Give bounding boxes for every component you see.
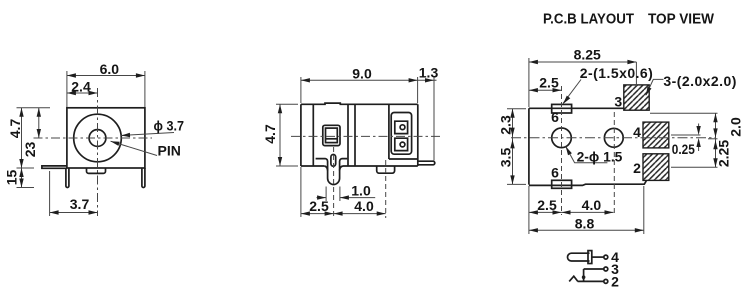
dim 4.0 bottom	[562, 197, 614, 215]
dim 1.0	[317, 182, 376, 200]
horizontal centerline side view	[291, 135, 443, 137]
outline bottom edge	[529, 181, 646, 186]
svg-text:1.3: 1.3	[419, 65, 439, 81]
center pin hole	[89, 130, 106, 147]
svg-text:2.5: 2.5	[309, 198, 329, 214]
dim 1.0 extensions	[326, 187, 340, 202]
svg-text:2.3: 2.3	[498, 115, 514, 135]
dim 9.0	[301, 65, 418, 82]
svg-text:15: 15	[4, 170, 20, 186]
svg-text:2: 2	[611, 273, 619, 289]
svg-text:ϕ 3.7: ϕ 3.7	[154, 118, 185, 134]
dim 4.7 side ticks	[276, 104, 298, 166]
plug flange	[588, 251, 592, 264]
dim 8.8	[529, 186, 644, 234]
svg-text:4.7: 4.7	[7, 119, 23, 139]
svg-text:3-(2.0x2.0): 3-(2.0x2.0)	[663, 73, 736, 89]
dim 2.5 side	[301, 198, 334, 216]
outline top edge	[529, 107, 624, 109]
svg-text:3.7: 3.7	[70, 196, 90, 212]
dim 0.25	[672, 124, 701, 158]
horizontal centerline pcb	[511, 137, 716, 139]
svg-text:2-(1.5x0.6): 2-(1.5x0.6)	[580, 65, 653, 81]
dim 3.7	[50, 196, 98, 215]
label phi 3.7 with leader	[121, 118, 184, 138]
dim 4.7 side	[262, 104, 282, 166]
hole 2 phi1.5	[604, 128, 623, 147]
pin number 6 bottom	[551, 164, 559, 180]
svg-text:3.5: 3.5	[498, 148, 514, 168]
pin number 3	[614, 94, 622, 110]
svg-text:2.5: 2.5	[537, 197, 557, 213]
left pin	[66, 168, 69, 188]
button outer	[323, 125, 340, 145]
lug base fillets	[324, 166, 343, 171]
dim 2.5 / 4.0 extension	[300, 167, 302, 217]
pad 4 hatched	[643, 122, 669, 148]
internal vertical wall 1	[312, 104, 314, 166]
switch contact spike	[569, 276, 578, 281]
pad3 vertical centerline	[635, 62, 637, 86]
label PIN with leader	[111, 141, 181, 158]
internal vertical wall 3	[354, 104, 356, 166]
pin number 6 top	[551, 109, 559, 125]
dim 2.0 / 2.25 line	[713, 113, 743, 167]
dim 4.7 / 1.5 line	[4, 108, 24, 188]
hole1 vertical centerline	[561, 86, 563, 215]
dim 9.0 extension lines	[301, 77, 434, 161]
dim 6.0 extension lines	[67, 71, 145, 107]
svg-text:8.25: 8.25	[574, 47, 601, 63]
terminal 4 circle	[604, 255, 608, 259]
plug barrel symbol	[568, 253, 590, 261]
svg-text:2: 2	[633, 160, 641, 176]
terminal 3 circle	[604, 267, 608, 271]
outline left edge	[528, 108, 530, 184]
body outline front view	[67, 108, 145, 168]
svg-text:9.0: 9.0	[352, 65, 372, 81]
svg-text:2-ϕ 1.5: 2-ϕ 1.5	[577, 149, 623, 165]
bottom boss	[87, 168, 106, 173]
label 3-(2.0x2.0) with leader	[646, 73, 737, 96]
terminal 2 circle	[604, 279, 608, 283]
svg-text:6.0: 6.0	[100, 61, 120, 77]
side body left edge	[300, 104, 302, 166]
svg-text:2.0: 2.0	[728, 117, 744, 137]
dim 1.3	[418, 65, 439, 83]
svg-text:2.5: 2.5	[539, 74, 559, 90]
switch junction dot	[582, 275, 586, 279]
terminal 4 label	[611, 249, 619, 265]
lug slot	[331, 155, 336, 167]
internal vertical wall 2	[347, 104, 349, 166]
title	[543, 11, 714, 27]
button inner	[326, 128, 338, 143]
svg-text:6: 6	[551, 164, 559, 180]
left mounting tab	[42, 166, 67, 168]
upper contact	[395, 121, 408, 133]
svg-text:4.0: 4.0	[582, 197, 602, 213]
terminal block inner frame	[391, 113, 411, 155]
switch vertical link	[583, 269, 585, 281]
bottom boss side view	[377, 166, 395, 173]
svg-text:1.0: 1.0	[351, 182, 371, 198]
barrel circle d3.7	[74, 114, 122, 162]
dim 3.7 extension	[49, 171, 51, 216]
svg-text:3: 3	[614, 94, 622, 110]
side body top edge	[301, 103, 418, 104]
terminal 3 label	[611, 261, 619, 277]
dim 23	[22, 108, 41, 157]
dim 2.3 / 3.5 ticks	[507, 109, 526, 185]
dim 6.0	[67, 61, 145, 78]
hole 1 phi1.5	[552, 128, 572, 148]
svg-text:2.4: 2.4	[71, 78, 91, 94]
right pin	[142, 168, 145, 188]
terminal block left edge	[388, 104, 390, 159]
dim 8.25	[529, 47, 637, 65]
lower contact	[395, 138, 408, 150]
bottom slot pad 1.5x0.6	[552, 180, 572, 188]
terminal 2 label	[611, 273, 619, 289]
svg-text:2.25: 2.25	[716, 140, 732, 167]
terminal 3 lead	[584, 268, 604, 270]
svg-text:PIN: PIN	[158, 143, 181, 159]
svg-text:4.0: 4.0	[354, 198, 374, 214]
dim ticks left side front view	[17, 108, 51, 188]
dim 2.3 / 3.5 line	[498, 109, 515, 185]
svg-text:P.C.B LAYOUT: P.C.B LAYOUT	[543, 11, 634, 27]
side body bottom edge	[301, 165, 418, 167]
side body right edge	[417, 104, 419, 166]
pin number 4	[633, 124, 641, 140]
svg-text:8.8: 8.8	[575, 216, 595, 232]
pad4 center extension line	[671, 134, 701, 136]
right solder tab	[418, 161, 435, 165]
svg-text:0.25: 0.25	[672, 141, 695, 157]
dim 2.0 / 2.25 extensions	[650, 113, 718, 167]
recess step lines	[316, 159, 348, 162]
svg-text:TOP VIEW: TOP VIEW	[648, 11, 714, 27]
boss centerline	[385, 160, 387, 218]
lug centerline	[333, 147, 335, 218]
svg-text:4.7: 4.7	[262, 124, 278, 144]
center lug	[328, 162, 340, 185]
svg-text:6: 6	[551, 109, 559, 125]
pin number 2	[633, 160, 641, 176]
dim 2.5 top	[529, 74, 562, 92]
svg-text:23: 23	[22, 142, 38, 158]
terminal block bottom	[389, 158, 418, 160]
label 2-phi1.5 with leader	[566, 146, 623, 164]
horizontal centerline front view	[34, 137, 153, 139]
pad 2 hatched	[643, 154, 669, 181]
vertical centerline front view	[97, 88, 99, 216]
terminal 4 lead	[592, 256, 604, 258]
pad 3 hatched	[624, 85, 649, 110]
svg-text:4: 4	[633, 124, 641, 140]
terminal 2 lead	[578, 280, 605, 282]
top slot pad 1.5x0.6	[552, 104, 572, 113]
dim 8.25 extension	[528, 58, 530, 107]
label 2-(1.5x0.6) with leader	[563, 65, 653, 104]
dim 4.0 side	[334, 198, 386, 216]
dim 2.4	[67, 78, 98, 95]
dim 2.5 bottom	[529, 186, 562, 234]
hole2 vertical centerline	[613, 112, 615, 215]
